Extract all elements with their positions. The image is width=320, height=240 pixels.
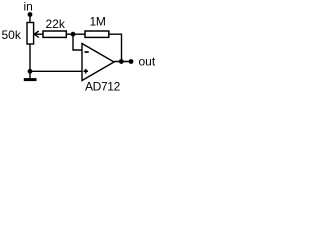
node out terminal dot xyxy=(129,59,134,64)
svg-text:50k: 50k xyxy=(2,28,22,42)
wire potentiometer bottom to ground junction xyxy=(29,44,31,71)
svg-text:AD712: AD712 xyxy=(85,80,121,94)
op-amp U1 noninverting pin mark xyxy=(84,69,89,74)
wire 22k to summing junction xyxy=(66,33,73,35)
junction dot at ground node xyxy=(28,69,33,74)
op-amp U1 inverting pin mark xyxy=(85,51,89,53)
potentiometer R1 wiper arrow xyxy=(34,31,43,37)
resistor R3 1M body xyxy=(85,31,109,37)
wire ground junction to op-amp noninverting input xyxy=(30,70,82,72)
resistor R2 22k body xyxy=(43,31,66,37)
wire summing junction down to inverting input xyxy=(73,34,82,50)
svg-text:in: in xyxy=(24,0,33,14)
svg-text:22k: 22k xyxy=(46,17,66,31)
op-amp U1 triangle xyxy=(82,44,114,81)
wire summing junction to 1M xyxy=(73,33,85,35)
svg-text:1M: 1M xyxy=(90,15,106,29)
svg-text:out: out xyxy=(139,55,156,69)
wire in terminal to potentiometer top xyxy=(29,15,31,24)
wire op-amp output to out terminal xyxy=(114,61,131,63)
wire 1M to output node xyxy=(109,34,122,61)
ground symbol xyxy=(29,71,31,78)
junction dot summing node xyxy=(71,32,76,37)
potentiometer R1 50k body xyxy=(27,23,34,45)
junction dot feedback to output xyxy=(119,59,124,64)
node in terminal dot xyxy=(28,12,33,17)
